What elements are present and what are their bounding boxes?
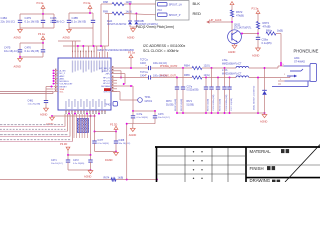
ground AGND bank4 [84,169,93,178]
svg-text:R69: R69 [103,10,108,14]
svg-text:47k(B): 47k(B) [236,14,244,18]
svg-text:R664: R664 [184,64,190,67]
svg-text:HP-GO: HP-GO [103,83,110,85]
op-amp U202 codec body [58,48,134,110]
junction top bundle [77,45,102,47]
wire bus net 1 [0,125,65,127]
svg-text:0.1u 16(05): 0.1u 16(05) [137,117,148,119]
wire jack pin stubs [278,64,286,84]
wire top bundle h2 [58,40,81,42]
svg-text:10u 16(-1C): 10u 16(-1C) [4,49,18,53]
svg-text:AGND: AGND [127,36,135,40]
resistor R673 [256,21,270,29]
capacitor C481 [28,87,49,109]
title block revision table [155,147,320,182]
capacitor C378 branch [222,68,228,113]
junction bottom net [126,179,158,181]
wire rail bank3 top [69,12,93,14]
svg-text:MMZ1608(H?)-(CT: MMZ1608(H?)-(CT [222,74,242,76]
svg-text:51(GB): 51(GB) [187,104,195,106]
wire bank4 rail top [67,154,91,156]
svg-text:R676 51(GB): R676 51(GB) [220,98,222,111]
tantalum C404 [111,71,192,79]
junction jack [280,64,282,66]
svg-text:P3.3a: P3.3a [84,1,91,5]
label BLK [193,1,201,6]
capacitor C472 [73,155,93,170]
svg-text:AGND: AGND [14,65,22,69]
wire HPR riser [117,74,125,85]
capacitor C377 branch [216,78,222,114]
capacitor C376 branch [209,68,215,113]
net PHONE_OUTR [160,65,178,68]
resistor R66a [266,30,283,35]
svg-text:0.1u 16(05): 0.1u 16(05) [98,143,109,145]
svg-text:R674: R674 [104,177,110,180]
svg-text:DTC343TU(P)TL: DTC343TU(P)TL [234,27,252,29]
svg-text:PHONE/LINE: PHONE/LINE [294,49,319,54]
ground AGND bank2 [14,57,23,68]
svg-text:A_/SS: A_/SS [60,70,67,73]
U202 top pins [73,52,108,58]
svg-text:1k(B): 1k(B) [277,30,283,33]
svg-text:P3.3a: P3.3a [252,6,259,10]
wire ground bus [177,112,265,114]
svg-text:22u 16(-1C): 22u 16(-1C) [50,19,64,23]
transistor Q611 [228,22,252,43]
ground DGND block [105,151,118,162]
wire Q611 emitter [234,44,236,46]
wire row B [105,14,156,15]
wire rail bank2 bottom [19,56,43,58]
svg-text:GPIO1: GPIO1 [145,100,153,103]
diode D2B [134,14,158,28]
wire GPIO1 [111,92,138,100]
svg-text:MICBIAS: MICBIAS [101,85,110,88]
capacitor C47b [153,111,170,124]
svg-text:1k(B): 1k(B) [126,0,133,4]
wire C477 rail bottom [95,150,117,152]
wire MICBIAS [111,85,133,111]
svg-text:R673: R673 [263,21,270,25]
wire micbias gnd riser [126,124,128,180]
svg-text:L70b: L70b [222,69,228,72]
wire bus net 2 [0,129,68,131]
wire rail bank2 top [20,42,43,44]
svg-text:12(G): 12(G) [204,74,210,77]
wire bank4 rail bottom [68,169,91,171]
label PHONE/LINE [294,49,319,54]
U202 right pins [99,66,117,93]
wire to jack pin5 [280,34,282,67]
svg-text:1.0u 25(-GB): 1.0u 25(-GB) [28,104,41,106]
svg-text:C376 0.035u(GB): C376 0.035u(GB) [226,94,228,111]
svg-text:R670: R670 [166,101,172,103]
ground AGND bus [260,113,268,123]
junction R66a node [257,33,259,35]
svg-text:C472: C472 [73,159,79,162]
svg-text:Q611: Q611 [234,22,241,26]
resistor R674 [104,177,124,182]
capacitor C372 branch [181,68,185,113]
wire bus net 3 [0,135,70,137]
svg-text:AGND: AGND [14,36,22,40]
wire HPL riser [117,71,122,79]
wire top bundle h1 [63,45,105,47]
capacitor C484 [1,14,23,28]
svg-text:R670 51(GB): R670 51(GB) [175,98,177,111]
svg-text:C56a: C56a [262,38,269,42]
capacitor C486 [50,14,64,28]
ground AGND C481 [40,107,48,116]
svg-text:PAD(1*2mm) Pitch(1mm): PAD(1*2mm) Pitch(1mm) [136,25,174,29]
pad SPOUT_LA [158,3,183,7]
power P3.3D (bank4) [60,142,70,155]
svg-text:DRAWING: DRAWING [250,178,271,182]
diode D64a [254,67,267,113]
svg-text:HP-OO: HP-OO [103,80,110,82]
junction [42,42,44,44]
wire SDA [0,91,53,93]
svg-text:+HPL: +HPL [105,74,111,76]
capacitor C488 [91,13,95,28]
svg-text:CDSOT-23-SM712: CDSOT-23-SM712 [107,24,127,26]
label R670 [166,101,174,106]
svg-text:R672: R672 [236,10,243,14]
svg-text:R671: R671 [187,101,193,103]
note I2C [143,44,186,53]
svg-text:22u 16(-1C): 22u 16(-1C) [1,19,15,23]
svg-text:P3.3D: P3.3D [60,142,67,146]
capacitor C477 [92,132,109,152]
label C37a [187,86,199,91]
svg-text:C47b: C47b [158,113,164,116]
wire diode common [130,27,136,29]
svg-text:R671 51(GB): R671 51(GB) [181,98,183,111]
svg-text:10u 16(-1C): 10u 16(-1C) [158,117,170,119]
junction row B [135,13,137,15]
svg-text:D2A: D2A [107,19,112,23]
svg-text:AIN1: AIN1 [60,77,66,80]
capacitor C56a [256,34,272,49]
svg-text:P3.3a: P3.3a [38,32,45,36]
svg-text:C481: C481 [28,99,34,102]
svg-text:D64a CDSOT-23-SM712: D64a CDSOT-23-SM712 [254,85,256,110]
U202 top pin labels [72,51,108,73]
inductor L70a [222,59,278,68]
svg-text:R675 51(GB): R675 51(GB) [208,98,210,111]
svg-text:C468: C468 [119,139,125,142]
U202 bottom pins [65,99,106,114]
svg-text:P3.3a: P3.3a [128,51,135,55]
power arrow (Q611 branch) [230,2,234,11]
connector J204 [272,57,317,86]
wire jack left drop [257,77,259,113]
power P3.3a (bank3) [84,1,92,13]
svg-text:C37a: C37a [187,86,193,88]
ground AGND bank1 [14,28,23,39]
svg-text:R68: R68 [103,0,108,4]
wire Q611 collector [241,33,258,35]
svg-text:1k(B): 1k(B) [118,177,124,180]
resistor R69 [103,10,132,15]
svg-text:DGND: DGND [105,158,113,162]
svg-text:C477: C477 [98,139,104,142]
wire rail bank3 bottom [69,27,93,29]
svg-text:MATERIAL: MATERIAL [250,149,272,154]
diode D2A [107,4,132,27]
svg-text:AGND: AGND [228,50,236,54]
pad SPOUT_P [158,13,181,17]
svg-text:MMZ1608(H?)-(CT: MMZ1608(H?)-(CT [222,63,242,65]
wire bus net 4 [0,140,73,142]
svg-text:0.1u 16(-05): 0.1u 16(-05) [25,19,40,23]
svg-text:P10: P10 [158,9,163,12]
svg-text:SPKR_2: SPKR_2 [102,71,111,73]
wire row A [101,3,156,5]
capacitor C471 [51,155,70,170]
wire micbias rail bottom [126,123,155,125]
title block material/finish [246,145,320,184]
label pad note [136,25,174,29]
svg-text:10u 16(-1C): 10u 16(-1C) [119,143,131,145]
svg-text:0.022u(GB): 0.022u(GB) [187,89,199,91]
svg-text:AGND: AGND [84,174,92,178]
svg-text:C377 1.0(GB): C377 1.0(GB) [231,98,233,111]
wire to Q611 base [231,22,233,33]
svg-text:R66a: R66a [266,30,273,33]
wire vertical row A feed [100,4,102,46]
svg-text:0.1u 16(-05): 0.1u 16(-05) [72,19,87,23]
ground AGND C56a [252,47,260,58]
wire bottom net [0,179,157,181]
capacitor C379 branch [227,78,233,114]
junction [42,13,44,15]
wire gnd stub [51,115,95,117]
svg-text:12(G): 12(G) [204,64,210,67]
power P3.3a (bank2) [38,32,45,43]
label R67a [187,101,195,106]
svg-text:L70a: L70a [222,59,228,62]
resistor R672 [230,10,244,18]
svg-text:ST-4WAD: ST-4WAD [294,61,305,64]
wire MIC stub [46,86,53,88]
label TP42 pad [105,102,118,107]
capacitor C475 [4,43,22,57]
net PHONE_OUTL [160,75,178,78]
svg-text:1k(B): 1k(B) [126,10,133,14]
svg-text:AGND: AGND [260,120,268,124]
wire R672 to node [231,17,233,22]
junction bottom pins [68,113,100,115]
ground AGND stub [46,116,54,126]
capacitor C479 [25,14,46,28]
wire SCL [0,92,53,94]
capacitor C375 branch [204,78,210,114]
svg-text:SDA: SDA [60,88,65,91]
svg-text:SPOUT_P: SPOUT_P [169,14,181,17]
wire micbias rail top [132,110,156,112]
power P3.3a (bank1) [37,1,45,14]
wire rail bank1 bottom [20,27,54,29]
svg-text:AGND: AGND [63,36,71,40]
svg-text:0.1u(05): 0.1u(05) [262,41,272,45]
svg-text:GPIO1: GPIO1 [103,92,110,94]
ground AGND micbias [129,124,137,137]
power P3.3D (block) [110,122,118,131]
svg-text:RED: RED [193,11,202,16]
wire C477 rail top [94,131,117,133]
svg-text:VOL/MICDET: VOL/MICDET [60,84,74,86]
svg-text:HP-OO: HP-OO [103,78,110,80]
svg-text:BLK: BLK [193,1,201,6]
tantalum C403 [111,59,192,71]
svg-text:PHONE_OUTR: PHONE_OUTR [160,65,178,68]
svg-text:PHONE_OUTL: PHONE_OUTL [160,75,178,78]
wire vertical row B feed [105,14,109,53]
wire VOL stub [46,88,53,90]
junction HP_JACK [231,21,233,23]
connector P10 box [156,1,190,21]
power P3.3a (C403) [128,51,135,69]
svg-text:C47a: C47a [137,113,143,116]
svg-text:AGND: AGND [252,54,260,58]
test point TP41 [138,96,153,103]
capacitor C485 [67,13,86,28]
wire pad verticals [74,114,95,155]
capacitor C468 [114,132,131,152]
svg-text:47k(B): 47k(B) [263,25,271,29]
svg-text:D2B: D2B [139,19,144,23]
svg-text:10u 16(-1C): 10u 16(-1C) [51,163,63,165]
svg-text:FINISH: FINISH [250,166,264,171]
resistor R665 [184,74,236,79]
U202 left pins [53,69,74,94]
svg-text:SPOUT_LA: SPOUT_LA [169,4,182,7]
resistor R68 [103,0,132,5]
ground AGND Q611 [228,44,237,54]
capacitor C476 [25,43,46,57]
svg-text:0.1u 16(-05): 0.1u 16(-05) [25,49,40,53]
svg-text:HP_SEL_2: HP_SEL_2 [99,68,110,70]
svg-text:I2C ADDRESS = 0011000x: I2C ADDRESS = 0011000x [143,44,186,48]
label RED [193,11,202,16]
inductor L70b [222,69,290,77]
net HP_JACK [207,18,232,23]
svg-text:R665: R665 [184,74,190,77]
junction rails [176,67,230,78]
wire R673 to node [257,29,259,34]
svg-text:P3.3D: P3.3D [110,122,117,126]
power P3.3a (R673) [252,6,260,21]
junction row A [129,3,131,5]
svg-text:AGND: AGND [129,133,137,137]
svg-text:51(GB): 51(GB) [166,104,174,106]
svg-text:P3.3a: P3.3a [37,1,44,5]
wire top bundle verticals [73,28,103,52]
svg-text:0.1u 16(05): 0.1u 16(05) [73,163,84,165]
wire rail bank1 top [20,13,54,15]
svg-text:C375 0.035u(GB): C375 0.035u(GB) [213,94,215,111]
capacitor C47a [131,111,148,124]
svg-text:HP_JACK: HP_JACK [210,18,222,22]
junction ground bus [176,112,265,114]
svg-text:SCL CLOCK = 400kHz: SCL CLOCK = 400kHz [143,49,179,53]
capacitor C371 branch [175,78,179,114]
svg-text:TP41: TP41 [145,96,152,99]
svg-text:C471: C471 [51,159,57,162]
wire bus risers [65,114,73,142]
svg-text:AGND: AGND [40,112,48,116]
ground AGND diodes [127,27,135,39]
ground AGND bank3 [63,28,72,39]
thermal pad hatch [77,99,89,149]
svg-text:AIN2: AIN2 [60,75,66,78]
resistor R664 [184,64,236,69]
